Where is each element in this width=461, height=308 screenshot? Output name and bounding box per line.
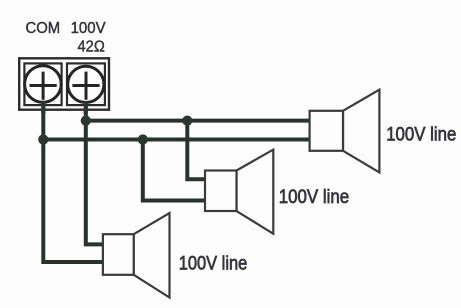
speaker bottom <box>103 213 170 297</box>
svg-text:100V line: 100V line <box>179 253 248 275</box>
wire COM bus <box>43 138 310 142</box>
svg-text:100V: 100V <box>71 20 106 37</box>
svg-text:COM: COM <box>26 20 61 37</box>
speaker top right <box>310 90 380 173</box>
node junction on COM bus at feed <box>38 134 48 144</box>
node junction COM bus to middle speaker <box>138 134 148 144</box>
node junction on 100V bus at feed <box>81 116 91 126</box>
speaker middle <box>205 150 273 234</box>
terminal screw COM <box>25 66 62 103</box>
wire top 100V bus <box>86 119 310 123</box>
wire drop to middle speaker top <box>187 121 206 180</box>
terminal screw 100V <box>68 66 104 102</box>
node junction top bus to middle speaker <box>182 116 192 126</box>
svg-text:42Ω: 42Ω <box>78 39 105 56</box>
wire drop to middle speaker bottom <box>143 140 206 201</box>
wire stub under 100V terminal <box>84 101 88 114</box>
svg-text:100V line: 100V line <box>386 124 456 146</box>
wire COM vertical feed <box>43 100 104 262</box>
terminal block outline <box>19 58 109 109</box>
wire 100V vertical feed <box>86 100 104 244</box>
wire stub under COM terminal <box>41 101 45 114</box>
svg-text:100V line: 100V line <box>279 186 350 208</box>
